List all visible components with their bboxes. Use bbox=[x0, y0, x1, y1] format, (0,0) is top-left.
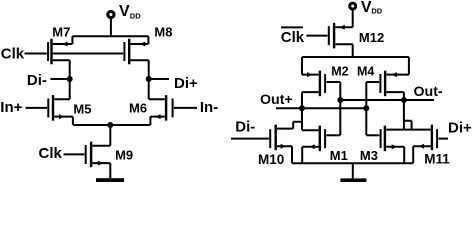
svg-text:In-: In- bbox=[200, 99, 218, 116]
node junction Di- dot bbox=[67, 76, 73, 82]
wire M7 to M8 gate line bbox=[53, 53, 123, 55]
node VDD label (left) bbox=[119, 3, 141, 21]
transistor M12 (PMOS) bbox=[328, 23, 353, 57]
transistor M3 (NMOS) bbox=[380, 126, 405, 164]
transistor M7 (PMOS) bbox=[47, 36, 72, 79]
svg-text:M11: M11 bbox=[424, 152, 450, 167]
svg-text:M6: M6 bbox=[129, 101, 147, 116]
wire VDD stem (right) bbox=[352, 10, 354, 27]
wire VDD rail (left) bbox=[72, 35, 148, 37]
wire M3 gate lead bbox=[366, 134, 379, 136]
wire Clk to M7 gate bbox=[25, 53, 47, 55]
svg-text:M12: M12 bbox=[359, 30, 384, 45]
wire VDD stem (left) bbox=[110, 19, 112, 37]
svg-text:In+: In+ bbox=[0, 99, 22, 116]
wire Di- to M10 gate bbox=[231, 138, 269, 140]
svg-text:M7: M7 bbox=[52, 25, 70, 40]
svg-text:M9: M9 bbox=[115, 148, 133, 163]
wire In- to M6 gate bbox=[174, 107, 197, 109]
wire Di- node to M5 drain bbox=[69, 79, 71, 99]
VDD terminal (left) bbox=[108, 11, 114, 17]
wire tail node bbox=[73, 124, 150, 126]
wire M4 gate to Out+ column bbox=[366, 82, 379, 135]
transistor M11 (NMOS, mirrored) bbox=[404, 121, 438, 164]
wire ground rail bbox=[292, 162, 413, 164]
wire Clk overline bbox=[281, 26, 303, 28]
wire Out- column down to M3 drain bbox=[403, 100, 405, 130]
wire Di- lead bbox=[50, 78, 69, 80]
svg-text:Di-: Di- bbox=[27, 72, 47, 89]
VDD terminal (right) bbox=[350, 3, 356, 9]
node Clkbar input bbox=[281, 29, 305, 46]
svg-text:DD: DD bbox=[371, 6, 382, 15]
svg-text:V: V bbox=[361, 0, 372, 16]
wire Di+ to M11 gate bbox=[438, 138, 448, 140]
wire latch VDD rail bbox=[302, 56, 409, 58]
svg-text:M10: M10 bbox=[258, 152, 284, 167]
svg-text:Clk: Clk bbox=[39, 145, 63, 162]
transistor M5 (NMOS) bbox=[47, 95, 73, 125]
node junction tail dot bbox=[107, 122, 113, 128]
svg-text:Di+: Di+ bbox=[174, 75, 198, 92]
wire M2 gate to Out- column bbox=[326, 82, 340, 135]
svg-text:Out+: Out+ bbox=[260, 92, 293, 108]
wire In+ to M5 gate bbox=[26, 107, 48, 109]
transistor M6 (NMOS, mirrored) bbox=[149, 95, 174, 125]
wire Clkbar to M12 gate bbox=[306, 35, 327, 37]
transistor M10 (NMOS) bbox=[269, 122, 302, 164]
svg-text:M8: M8 bbox=[154, 25, 172, 40]
svg-text:M3: M3 bbox=[360, 148, 378, 163]
node junction Di+ dot bbox=[146, 76, 152, 82]
wire M1 gate lead bbox=[326, 134, 340, 136]
node junction M2 drain / Out+ bbox=[299, 105, 305, 111]
transistor M8 (PMOS) bbox=[123, 36, 148, 79]
svg-text:Di-: Di- bbox=[235, 119, 255, 136]
svg-text:M5: M5 bbox=[73, 101, 91, 116]
svg-text:M4: M4 bbox=[357, 64, 374, 78]
node junction M2 gate / Out- bbox=[337, 97, 343, 103]
svg-text:DD: DD bbox=[130, 12, 141, 21]
wire Out+ column down to M1 drain bbox=[301, 108, 303, 130]
transistor M1 (NMOS, mirrored) bbox=[302, 126, 326, 164]
svg-text:Clk: Clk bbox=[281, 29, 305, 46]
svg-text:Di+: Di+ bbox=[448, 119, 472, 136]
transistor M9 (NMOS tail) bbox=[85, 142, 111, 179]
node VDD label (right) bbox=[361, 0, 383, 16]
wire Out- line L1 bbox=[340, 99, 434, 101]
node junction M4 drain / Out- bbox=[401, 97, 407, 103]
svg-text:M2: M2 bbox=[331, 64, 348, 78]
svg-text:V: V bbox=[119, 3, 130, 20]
wire Di+ lead bbox=[149, 78, 169, 80]
svg-text:M1: M1 bbox=[330, 148, 348, 163]
ground (right) bbox=[340, 178, 366, 182]
svg-text:Clk: Clk bbox=[1, 45, 25, 62]
wire Di+ node to M6 drain bbox=[148, 79, 150, 99]
node junction M4 gate / Out+ bbox=[363, 105, 369, 111]
svg-text:Out-: Out- bbox=[414, 84, 443, 100]
wire tail to M9 drain bbox=[109, 125, 111, 146]
ground (left) bbox=[96, 178, 124, 182]
transistor M4 (PMOS) bbox=[379, 57, 409, 100]
wire Clk to M9 gate bbox=[64, 153, 85, 155]
wire Out+ line L2 bbox=[276, 107, 366, 109]
wire ground stub bbox=[352, 163, 354, 178]
transistor M2 (PMOS, mirrored) bbox=[302, 57, 326, 108]
